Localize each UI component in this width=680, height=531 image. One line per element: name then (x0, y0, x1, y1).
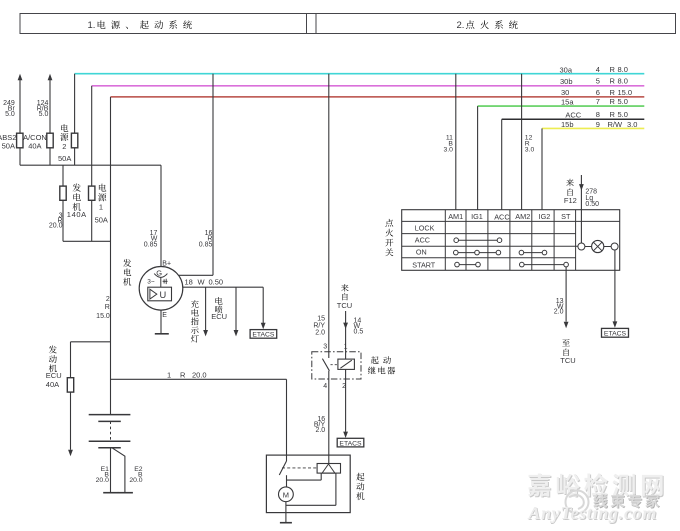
battery negative wire to ground E2 (112, 448, 133, 493)
wire label 249 Br 5.0 (3, 100, 15, 118)
wire motor to ground (280, 502, 292, 523)
fuse ABS2 50A (17, 133, 23, 148)
wire net 30a to generator IG terminal (179, 74, 213, 276)
wire label 14 W 0.5 (354, 317, 364, 335)
wire solenoid winding to contact (287, 473, 322, 480)
ignition switch row labels (412, 223, 436, 269)
wire label 16 R 0.85 (199, 230, 213, 248)
key lamp contact right (611, 243, 618, 250)
wire fuse ABS2 to bus (19, 148, 21, 165)
wire label 12 R 3.0 (525, 135, 535, 154)
svg-text:TCU: TCU (560, 356, 575, 365)
svg-text:15b: 15b (561, 120, 574, 129)
wire net 15b to IG2 (541, 128, 543, 209)
wire net ACC to ACC column (501, 119, 503, 209)
wire lamp to ETACS (arrow) (613, 250, 618, 328)
key lamp contact left (578, 243, 585, 250)
ignition switch label 点火开关 (385, 219, 393, 256)
svg-text:7: 7 (596, 97, 600, 106)
watermark logo circle (566, 491, 589, 514)
wire to A/CON feed (up arrow) (48, 74, 53, 133)
wire label 15 R/Y 2.0 (313, 316, 325, 337)
svg-text:9: 9 (596, 120, 600, 129)
svg-text:M: M (283, 491, 289, 500)
branch to ETACS (arrow) (261, 287, 266, 329)
svg-text:6: 6 (596, 88, 600, 97)
svg-text:R: R (610, 65, 616, 74)
wire label 17 W 0.85 (144, 230, 158, 248)
contacts START row (AM2-ST) (520, 262, 569, 267)
svg-text:ST: ST (561, 212, 571, 221)
svg-text:5: 5 (596, 77, 600, 86)
svg-text:B+: B+ (162, 260, 171, 267)
generator label 发电机 (123, 259, 131, 286)
svg-text:R: R (610, 97, 616, 106)
title text: 2.点火系统 (457, 20, 518, 31)
svg-text:5.0: 5.0 (39, 111, 49, 118)
watermark 线束专家 (593, 494, 660, 509)
svg-text:IG2: IG2 (539, 212, 551, 221)
net 30b labels (560, 77, 628, 86)
svg-text:1.: 1. (88, 20, 96, 31)
svg-text:20.0: 20.0 (96, 477, 109, 484)
svg-text:50A: 50A (2, 141, 15, 150)
svg-text:1: 1 (167, 370, 171, 379)
title block frame (20, 14, 676, 34)
wire label 11 B 3.0 (443, 135, 453, 154)
fuse 电源1 labels (95, 184, 108, 225)
wire label 1 R 20.0 (167, 370, 207, 379)
starter motor M circle (279, 487, 294, 502)
svg-text:ON: ON (416, 247, 427, 256)
svg-text:ETACS: ETACS (339, 440, 362, 447)
net 15a labels (561, 97, 628, 106)
ETACS box (lamp branch) (602, 328, 629, 337)
svg-text:20.0: 20.0 (192, 370, 207, 379)
svg-text:R/W: R/W (608, 120, 624, 129)
wire solenoid to motor negative (286, 473, 336, 505)
fuse 电源1 50A (89, 186, 95, 200)
watermark 嘉峪检测网 (528, 473, 664, 497)
svg-text:AnyTesting.com: AnyTesting.com (527, 503, 657, 523)
ETACS box (relay branch) (337, 438, 364, 447)
label 来自F12 (564, 179, 577, 205)
svg-text:2.0: 2.0 (554, 309, 564, 316)
net 30a wire (cyan) (75, 73, 645, 75)
svg-text:AM1: AM1 (448, 212, 463, 221)
svg-text:0.85: 0.85 (144, 241, 158, 248)
wire net 30b to fuse 电源1 (91, 86, 93, 186)
contacts ON row (AM1-IG1-ACC) (454, 250, 501, 255)
label 电喷ECU (211, 297, 227, 321)
branch to charge indicator lamp (arrow) (203, 287, 208, 336)
generator G1 circle (139, 267, 183, 311)
wire from fuse F12 (arrow) (579, 175, 584, 244)
label 充电指示灯 (191, 300, 199, 343)
svg-text:1: 1 (344, 343, 348, 350)
wire net 30a to relay pin3 (328, 74, 330, 358)
svg-text:40A: 40A (28, 141, 41, 150)
contacts ON row (AM2-IG2) (519, 250, 547, 255)
ignition switch column headers (448, 212, 571, 222)
wire net 30a to AM1 (455, 74, 457, 210)
fuse ABS2 labels (0, 133, 16, 150)
svg-text:20.0: 20.0 (49, 223, 63, 230)
svg-text:4: 4 (596, 65, 600, 74)
ground E1 label (96, 466, 110, 484)
svg-text:R: R (105, 304, 110, 311)
svg-text:ECU: ECU (211, 312, 227, 321)
svg-text:R: R (180, 370, 186, 379)
svg-text:U: U (160, 290, 167, 300)
key illumination lamp (585, 240, 611, 252)
starter switch blade (279, 461, 286, 487)
svg-text:0.50: 0.50 (209, 278, 224, 287)
net 15b wire (yellow) (542, 127, 644, 129)
starter dashed actuator link (282, 467, 317, 469)
wire label 18 W 0.50 (185, 278, 224, 287)
svg-text:1: 1 (99, 203, 103, 212)
svg-text:2: 2 (106, 296, 110, 303)
wire label 2 R 15.0 (96, 296, 110, 320)
relay contact-coil dashed link (331, 364, 339, 366)
wire 18 W 0.50 from generator L terminal (183, 286, 263, 288)
wire relay pin2 to ETACS (arrow) (343, 369, 348, 438)
label 来自TCU (to relay) (337, 284, 352, 310)
svg-text:4: 4 (323, 383, 327, 390)
svg-text:5.0: 5.0 (618, 110, 628, 119)
svg-text:R: R (610, 110, 616, 119)
svg-text:2.0: 2.0 (315, 329, 325, 336)
svg-text:50A: 50A (95, 215, 108, 224)
svg-text:30b: 30b (560, 77, 573, 86)
wire bus to generator B+ (160, 165, 162, 266)
wire net 15a to IG1 (477, 106, 479, 210)
svg-text:50A: 50A (58, 154, 71, 163)
wire fuse 发电机140A to connector (62, 200, 64, 241)
fuse 电源2 50A (71, 133, 77, 148)
svg-text:5.0: 5.0 (618, 97, 628, 106)
starter motor box (266, 455, 350, 512)
battery positive plate 2 (long) (89, 440, 131, 442)
svg-text:30a: 30a (560, 65, 573, 74)
label 至自TCU (560, 339, 575, 365)
connector wire below fuses (63, 240, 111, 242)
wire label 124 R/B 5.0 (37, 100, 49, 118)
svg-text:W: W (198, 278, 206, 287)
svg-text:ECU: ECU (46, 371, 62, 380)
svg-text:3.0: 3.0 (525, 147, 535, 154)
svg-text:2: 2 (62, 142, 66, 151)
fuse 发电机 140A (60, 186, 66, 200)
net 30a labels (560, 65, 628, 74)
svg-text:2.0: 2.0 (315, 427, 325, 434)
svg-text:15.0: 15.0 (618, 88, 633, 97)
svg-text:8.0: 8.0 (618, 77, 628, 86)
net 30 wire (red) (111, 96, 645, 98)
bus wire (horizontal distribution) (20, 164, 161, 166)
net 15a wire (green) (478, 105, 645, 107)
net 30 labels (561, 88, 632, 97)
svg-text:ETACS: ETACS (252, 332, 275, 339)
wire ST to TCU (arrow) (564, 267, 569, 328)
battery negative wire to ground E1 (103, 448, 118, 493)
ETACS box (generator branch) (250, 330, 277, 339)
svg-text:START: START (412, 260, 436, 269)
svg-text:ACC: ACC (415, 235, 430, 244)
battery negative plate (short) (98, 420, 121, 422)
wire battery to starter motor (1 R 20.0) (111, 379, 287, 461)
fuse 电源2 labels (58, 124, 71, 163)
svg-text:E: E (162, 312, 167, 319)
net ACC wire (black) (502, 118, 645, 120)
wire label 13 W 2.0 (554, 298, 564, 315)
svg-text:0.50: 0.50 (585, 201, 599, 208)
wire net 30a to fuse 电源2 (74, 74, 76, 134)
wire label 3 R 20.0 (49, 212, 63, 229)
wire label 278 Lg 0.50 (585, 188, 599, 208)
starter solenoid (317, 464, 340, 474)
net ACC labels (565, 110, 628, 119)
fuse 发电机140A labels (67, 184, 87, 220)
contacts START row (AM1-IG1) (455, 262, 481, 267)
svg-text:3~: 3~ (147, 279, 155, 286)
svg-text:0.5: 0.5 (354, 328, 364, 335)
wire label 16 B/Y 2.0 (314, 416, 326, 434)
svg-text:0.85: 0.85 (199, 241, 213, 248)
wire fuse 电源2 to bus (74, 148, 76, 165)
svg-text:F12: F12 (564, 196, 577, 205)
fuse A/CON labels (23, 133, 47, 150)
svg-text:15a: 15a (561, 97, 574, 106)
svg-text:140A: 140A (67, 210, 87, 219)
relay label 起动继电器 (368, 356, 395, 374)
svg-text:3.0: 3.0 (443, 147, 453, 154)
wire battery line to engine ECU fuse (71, 342, 111, 378)
battery positive wire (net 30 to battery) (110, 97, 112, 415)
ignition switch table frame (402, 210, 620, 271)
wire fuse A/CON to bus (49, 148, 51, 165)
ground E2 label (129, 466, 143, 484)
svg-text:8: 8 (596, 110, 600, 119)
svg-text:15: 15 (317, 316, 325, 323)
svg-text:TCU: TCU (337, 301, 352, 310)
svg-text:3.0: 3.0 (627, 120, 637, 129)
svg-text:R: R (610, 88, 616, 97)
battery positive plate (long) (89, 414, 131, 416)
battery cell dashes (110, 421, 112, 441)
svg-text:ETACS: ETACS (604, 331, 627, 338)
svg-text:5.0: 5.0 (5, 111, 15, 118)
svg-text:2.: 2. (457, 20, 465, 31)
wire net 30a to AM2 (521, 74, 523, 210)
contacts ACC row (AM1-ACC) (454, 238, 502, 243)
svg-text:18: 18 (185, 278, 193, 287)
svg-text:IG1: IG1 (471, 212, 483, 221)
svg-text:R: R (610, 77, 616, 86)
net 15b labels (561, 120, 637, 129)
wire bus to fuse 发电机140A (62, 165, 64, 186)
svg-text:20.0: 20.0 (129, 477, 142, 484)
fuse 发动机ECU 40A (67, 378, 73, 392)
svg-text:ACC: ACC (494, 212, 509, 221)
watermark AnyTesting.com (527, 503, 658, 524)
generator internal G winding symbol (154, 268, 167, 287)
net 30b wire (magenta) (92, 85, 645, 87)
wire engine ECU fuse down (arrow) (68, 392, 73, 456)
relay pin labels 3 1 4 2 (323, 343, 347, 390)
label 发动机ECU 40A (46, 346, 62, 390)
wire relay pin4 to starter solenoid (328, 379, 330, 464)
svg-text:LOCK: LOCK (415, 223, 435, 232)
svg-text:3: 3 (323, 343, 327, 350)
fuse A/CON 40A (47, 133, 53, 148)
generator E terminal wire and ground (155, 310, 169, 334)
wire from TCU to relay pin1 (arrow) (343, 311, 348, 359)
svg-text:15.0: 15.0 (96, 313, 110, 320)
battery negative plate 2 (short) (98, 447, 121, 449)
wire to ABS2 feed (up arrow) (18, 74, 23, 133)
relay switch contact (322, 359, 329, 379)
svg-text:AM2: AM2 (515, 212, 530, 221)
generator internal brush symbol (163, 279, 168, 284)
branch to EFI ECU (arrow) (234, 287, 239, 336)
svg-text:ACC: ACC (565, 110, 581, 119)
regulator U box (148, 287, 172, 301)
starter label 起动机 (356, 473, 364, 500)
svg-text:40A: 40A (46, 380, 59, 389)
svg-text:8.0: 8.0 (618, 65, 628, 74)
title text: 1.电源、起动系统 (88, 20, 192, 31)
svg-text:30: 30 (561, 88, 569, 97)
wire fuse 电源1 to connector (91, 200, 93, 241)
relay coil (338, 359, 355, 369)
starter relay box (dash-dot) (312, 352, 361, 379)
